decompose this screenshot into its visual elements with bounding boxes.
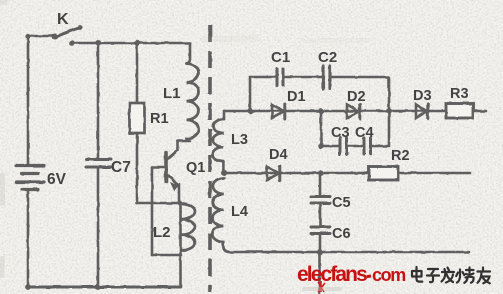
wire: base vertical down bbox=[151, 167, 154, 255]
wire: C7 branch lower bbox=[97, 168, 100, 287]
svg-text:L2: L2 bbox=[153, 224, 171, 241]
wire: C1C2 top branch bbox=[250, 77, 389, 111]
capacitor C4 bbox=[364, 138, 371, 154]
switch K bbox=[28, 25, 82, 46]
svg-text:C6: C6 bbox=[332, 226, 351, 242]
wire: L3 top drop bbox=[223, 111, 226, 119]
svg-text:D1: D1 bbox=[287, 89, 306, 105]
svg-text:C5: C5 bbox=[332, 195, 351, 211]
wire: C3C4 row bbox=[321, 111, 389, 146]
svg-text:D4: D4 bbox=[269, 147, 288, 163]
junction: battery at ground rail bbox=[25, 284, 31, 290]
svg-text:elecfans: elecfans bbox=[297, 263, 367, 286]
junction: C2/C4 node on upper wire bbox=[386, 108, 392, 114]
junction: C3 row tap bbox=[318, 143, 323, 148]
svg-text:6V: 6V bbox=[47, 171, 67, 188]
wire: left battery riser bottom bbox=[27, 191, 30, 287]
wire: L1 bottom to collector bbox=[178, 139, 190, 141]
watermark chinese 电子发烧友 bbox=[412, 267, 490, 283]
capacitor C6 bbox=[311, 227, 330, 234]
glyph 发 bbox=[442, 268, 455, 283]
svg-text:D3: D3 bbox=[413, 88, 432, 104]
junction: C7 at ground rail bbox=[95, 284, 101, 290]
junction: L3-L4 tap on lower wire bbox=[221, 170, 227, 176]
resistor R1 bbox=[130, 103, 145, 133]
wire: L3 bottom to lower wire bbox=[222, 161, 225, 173]
wire: bottom ground rail left section bbox=[27, 286, 180, 289]
svg-text:C3: C3 bbox=[331, 125, 350, 141]
svg-text:Q1: Q1 bbox=[186, 160, 205, 176]
glyph 友 bbox=[478, 268, 491, 284]
resistor R2 bbox=[369, 167, 398, 181]
wire: R1 branch lower bbox=[136, 133, 139, 203]
inductor L3 bbox=[212, 119, 224, 161]
transistor Q1 bbox=[152, 141, 179, 203]
capacitor C1 bbox=[277, 69, 283, 86]
watermark red mark below bbox=[318, 281, 325, 292]
junction: emitter node at R1 feed bbox=[178, 201, 183, 206]
svg-text:R1: R1 bbox=[150, 111, 169, 127]
diode D3 bbox=[416, 104, 428, 119]
wire: C7 branch upper bbox=[97, 43, 100, 158]
svg-text:D2: D2 bbox=[347, 89, 366, 105]
capacitor C5 bbox=[311, 197, 330, 204]
watermark elecfans.com bbox=[297, 263, 405, 286]
junction: C5 branch on lower wire bbox=[318, 170, 324, 176]
junction: R1 at top rail bbox=[134, 40, 140, 46]
wire: C5C6 branch bbox=[319, 173, 322, 253]
diode D4 bbox=[267, 166, 280, 181]
svg-text:L1: L1 bbox=[163, 85, 181, 102]
wire: top supply rail bbox=[72, 42, 190, 45]
svg-text:L3: L3 bbox=[231, 132, 248, 148]
resistor R3 bbox=[446, 104, 473, 119]
junction: C5 branch on upper wire bbox=[318, 108, 324, 114]
junction: battery top corner bbox=[25, 34, 30, 39]
transformer core dashed line bbox=[208, 25, 212, 292]
wire: R1 bottom to emitter node bbox=[136, 202, 180, 205]
diode D1 bbox=[272, 104, 285, 119]
glyph 烧 bbox=[456, 268, 473, 283]
wire: L4 bottom corner to bottom output wire bbox=[223, 242, 469, 252]
svg-text:com: com bbox=[372, 265, 405, 285]
svg-text:C7: C7 bbox=[111, 159, 131, 176]
wire: secondary upper main bbox=[224, 110, 486, 113]
svg-text:K: K bbox=[57, 11, 69, 28]
svg-text:C4: C4 bbox=[355, 125, 374, 141]
wire: L2 bottom horizontal bbox=[152, 254, 181, 257]
capacitor C7 bbox=[86, 160, 111, 168]
svg-text:R2: R2 bbox=[391, 148, 410, 164]
wire: L1 drop from rail bbox=[187, 43, 191, 64]
junction: C7 at top rail bbox=[95, 40, 101, 46]
svg-text:R3: R3 bbox=[450, 86, 469, 102]
wire: R1 branch upper bbox=[136, 43, 139, 103]
scan smudges bbox=[0, 0, 370, 291]
wire: emitter net down to ground rail bbox=[179, 203, 182, 287]
inductor L4 bbox=[212, 178, 224, 242]
junction: C1 branch on upper wire bbox=[247, 108, 253, 114]
capacitor C3 bbox=[340, 138, 347, 154]
diode D2 bbox=[347, 104, 360, 119]
wire: center lead continuing below bottom wire bbox=[318, 253, 321, 294]
svg-text:C1: C1 bbox=[271, 49, 290, 66]
wire: secondary lower main bbox=[224, 172, 470, 175]
wire: left battery riser top bbox=[27, 36, 30, 164]
glyph 子 bbox=[427, 269, 439, 282]
glyph 电 bbox=[412, 267, 422, 282]
svg-text:L4: L4 bbox=[231, 204, 248, 220]
battery 6V bbox=[16, 166, 44, 190]
inductor L1 bbox=[187, 64, 199, 139]
svg-text:C2: C2 bbox=[318, 49, 337, 66]
junction: C6 at bottom output wire bbox=[317, 250, 323, 256]
capacitor C2 bbox=[323, 66, 330, 89]
inductor L2 bbox=[181, 204, 195, 251]
